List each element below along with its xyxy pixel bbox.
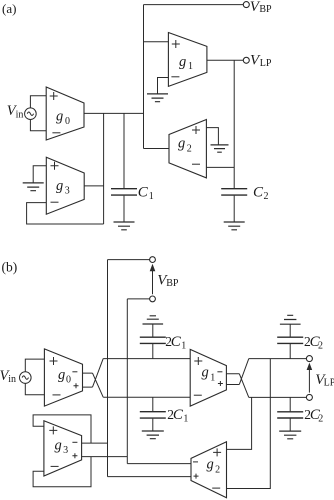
wire g3 feedback vertical <box>103 113 105 224</box>
label g1 (b) <box>202 365 216 384</box>
label 2C2 bottom <box>304 407 323 425</box>
wire VBP+ <box>108 259 150 261</box>
source Vin (b) <box>20 372 32 384</box>
terminal VBP <box>243 2 249 8</box>
svg-text:C: C <box>173 407 184 423</box>
svg-text:(a): (a) <box>2 1 16 16</box>
label C1 <box>138 185 154 202</box>
ground above capacitor 2C1 top <box>143 316 164 324</box>
svg-text:g: g <box>207 457 214 473</box>
label g1 <box>179 54 193 72</box>
wire g3 + input to ground <box>33 166 46 183</box>
capacitor C2 <box>221 189 247 222</box>
svg-text:g: g <box>58 367 65 383</box>
wire node A+ vertical <box>107 260 109 477</box>
wire g1 - input to ground <box>158 78 169 94</box>
label VBP (b) <box>157 273 179 289</box>
ground g1 <box>147 94 168 102</box>
wire lower rail A <box>103 396 190 398</box>
capacitor C1 <box>111 113 137 221</box>
wire node1 to VBP terminal <box>144 4 244 6</box>
wire A- to g2 - output <box>127 463 191 465</box>
wire lower rail LP <box>249 396 307 398</box>
wire g2 output to node1 <box>144 148 170 150</box>
label 2C2 top <box>304 334 323 352</box>
wire g0 output to node1 <box>84 112 144 114</box>
svg-text:in: in <box>16 109 24 120</box>
wire g3 - input wrap <box>33 457 91 487</box>
wire VBP- <box>127 298 149 300</box>
label g3 <box>56 178 70 197</box>
wire g2 + input to ground <box>206 128 218 145</box>
svg-text:2: 2 <box>318 341 323 352</box>
svg-text:3: 3 <box>65 186 70 197</box>
capacitor 2C2 top <box>277 324 303 358</box>
svg-text:g: g <box>202 365 209 381</box>
op-amp g3 (b) <box>44 421 82 476</box>
label g2 (b) <box>207 457 221 476</box>
wire Vin to g0 + input (b) <box>25 359 44 372</box>
capacitor 2C2 bottom <box>277 397 303 430</box>
wire g3 - input feedback loop <box>27 203 104 224</box>
wire node1 to g1 + input <box>144 41 169 43</box>
op-amp g2 <box>169 120 206 178</box>
ground g2 <box>211 145 229 152</box>
svg-text:C: C <box>171 334 182 350</box>
op-amp g0 (b) <box>44 349 82 406</box>
svg-text:0: 0 <box>66 374 71 385</box>
wire node A- vertical <box>126 299 128 464</box>
svg-text:LP: LP <box>260 58 272 69</box>
wire upper rail A <box>103 358 190 360</box>
op-amp g0 <box>46 87 84 140</box>
wire g1 output to VLP <box>207 59 243 61</box>
svg-text:0: 0 <box>65 116 70 127</box>
label VLP (b) <box>315 372 334 389</box>
svg-text:2: 2 <box>215 464 220 475</box>
ground C1 <box>114 222 135 230</box>
ground below capacitor 2C2 bottom <box>279 431 301 439</box>
svg-text:1: 1 <box>149 191 154 202</box>
op-amp g3 <box>46 157 84 214</box>
svg-text:BP: BP <box>166 278 179 289</box>
svg-text:1: 1 <box>183 413 188 424</box>
terminal VBP+ <box>150 257 156 263</box>
svg-text:g: g <box>178 136 185 152</box>
svg-text:g: g <box>179 54 186 70</box>
svg-text:1: 1 <box>181 340 186 351</box>
label 2C1 top <box>165 334 186 351</box>
wire g3 output <box>84 185 103 187</box>
wire g2 - input to node2 <box>206 166 234 168</box>
svg-text:g: g <box>56 178 63 194</box>
ground below capacitor 2C1 bottom <box>142 431 164 439</box>
arrow VBP <box>150 264 156 294</box>
wire Vin to g0 - input <box>30 120 46 131</box>
op-amp g2 (b) <box>191 442 227 498</box>
wire LP lower to g2 + input <box>227 397 252 449</box>
ground g3 <box>23 183 44 191</box>
wire g3 - output stub <box>82 442 108 444</box>
svg-text:in: in <box>8 374 16 385</box>
terminal VLP <box>243 57 249 63</box>
label g0 (b) <box>58 367 71 386</box>
wire A+ to g2 + output <box>108 476 192 478</box>
svg-text:BP: BP <box>259 4 272 15</box>
wire g0 output crossing (b) <box>93 359 104 398</box>
label Vin <box>7 103 24 120</box>
svg-text:2: 2 <box>318 414 323 425</box>
label 2C1 bottom <box>167 407 188 424</box>
svg-text:(b): (b) <box>2 260 18 275</box>
wire Vin to g0 - input (b) <box>25 383 44 394</box>
wire g1 output stubs (b) <box>226 374 239 385</box>
terminal VBP- <box>150 296 156 302</box>
op-amp g1 <box>168 33 207 87</box>
label VBP <box>250 0 272 15</box>
svg-text:LP: LP <box>324 378 334 389</box>
svg-text:C: C <box>253 185 264 201</box>
wire node2 vertical <box>233 60 235 188</box>
arrow VLP <box>307 363 313 393</box>
capacitor 2C1 bottom <box>140 397 166 431</box>
wire upper rail LP <box>249 358 307 360</box>
wire g3 + output stub <box>82 456 128 458</box>
source Vin <box>25 108 37 120</box>
label g0 <box>56 108 70 127</box>
terminal VLP- <box>306 394 312 400</box>
wire node1 vertical <box>143 5 145 149</box>
terminal VLP+ <box>306 356 312 362</box>
label Vin (b) <box>0 368 16 385</box>
svg-text:2: 2 <box>264 191 269 202</box>
wire g3 + input wrap <box>33 415 91 443</box>
wire Vin to g0 + input <box>30 96 46 108</box>
svg-text:2: 2 <box>187 143 192 154</box>
svg-text:g: g <box>56 108 63 124</box>
svg-text:1: 1 <box>188 61 193 72</box>
ground C2 <box>224 222 245 230</box>
op-amp g1 (b) <box>190 349 226 406</box>
ground above capacitor 2C2 top <box>280 315 301 324</box>
svg-text:C: C <box>138 185 149 201</box>
svg-text:1: 1 <box>210 372 215 383</box>
capacitor 2C1 top <box>140 324 166 358</box>
svg-text:g: g <box>55 437 62 453</box>
wire LP upper to g2 - input <box>227 359 271 489</box>
wire g0 output stubs (b) <box>83 373 93 387</box>
label VLP <box>250 53 272 70</box>
label g3 (b) <box>55 437 69 456</box>
label C2 <box>253 185 269 202</box>
label g2 <box>178 136 192 155</box>
svg-text:3: 3 <box>63 445 68 456</box>
wire g1 output crossing (b) <box>239 359 249 398</box>
